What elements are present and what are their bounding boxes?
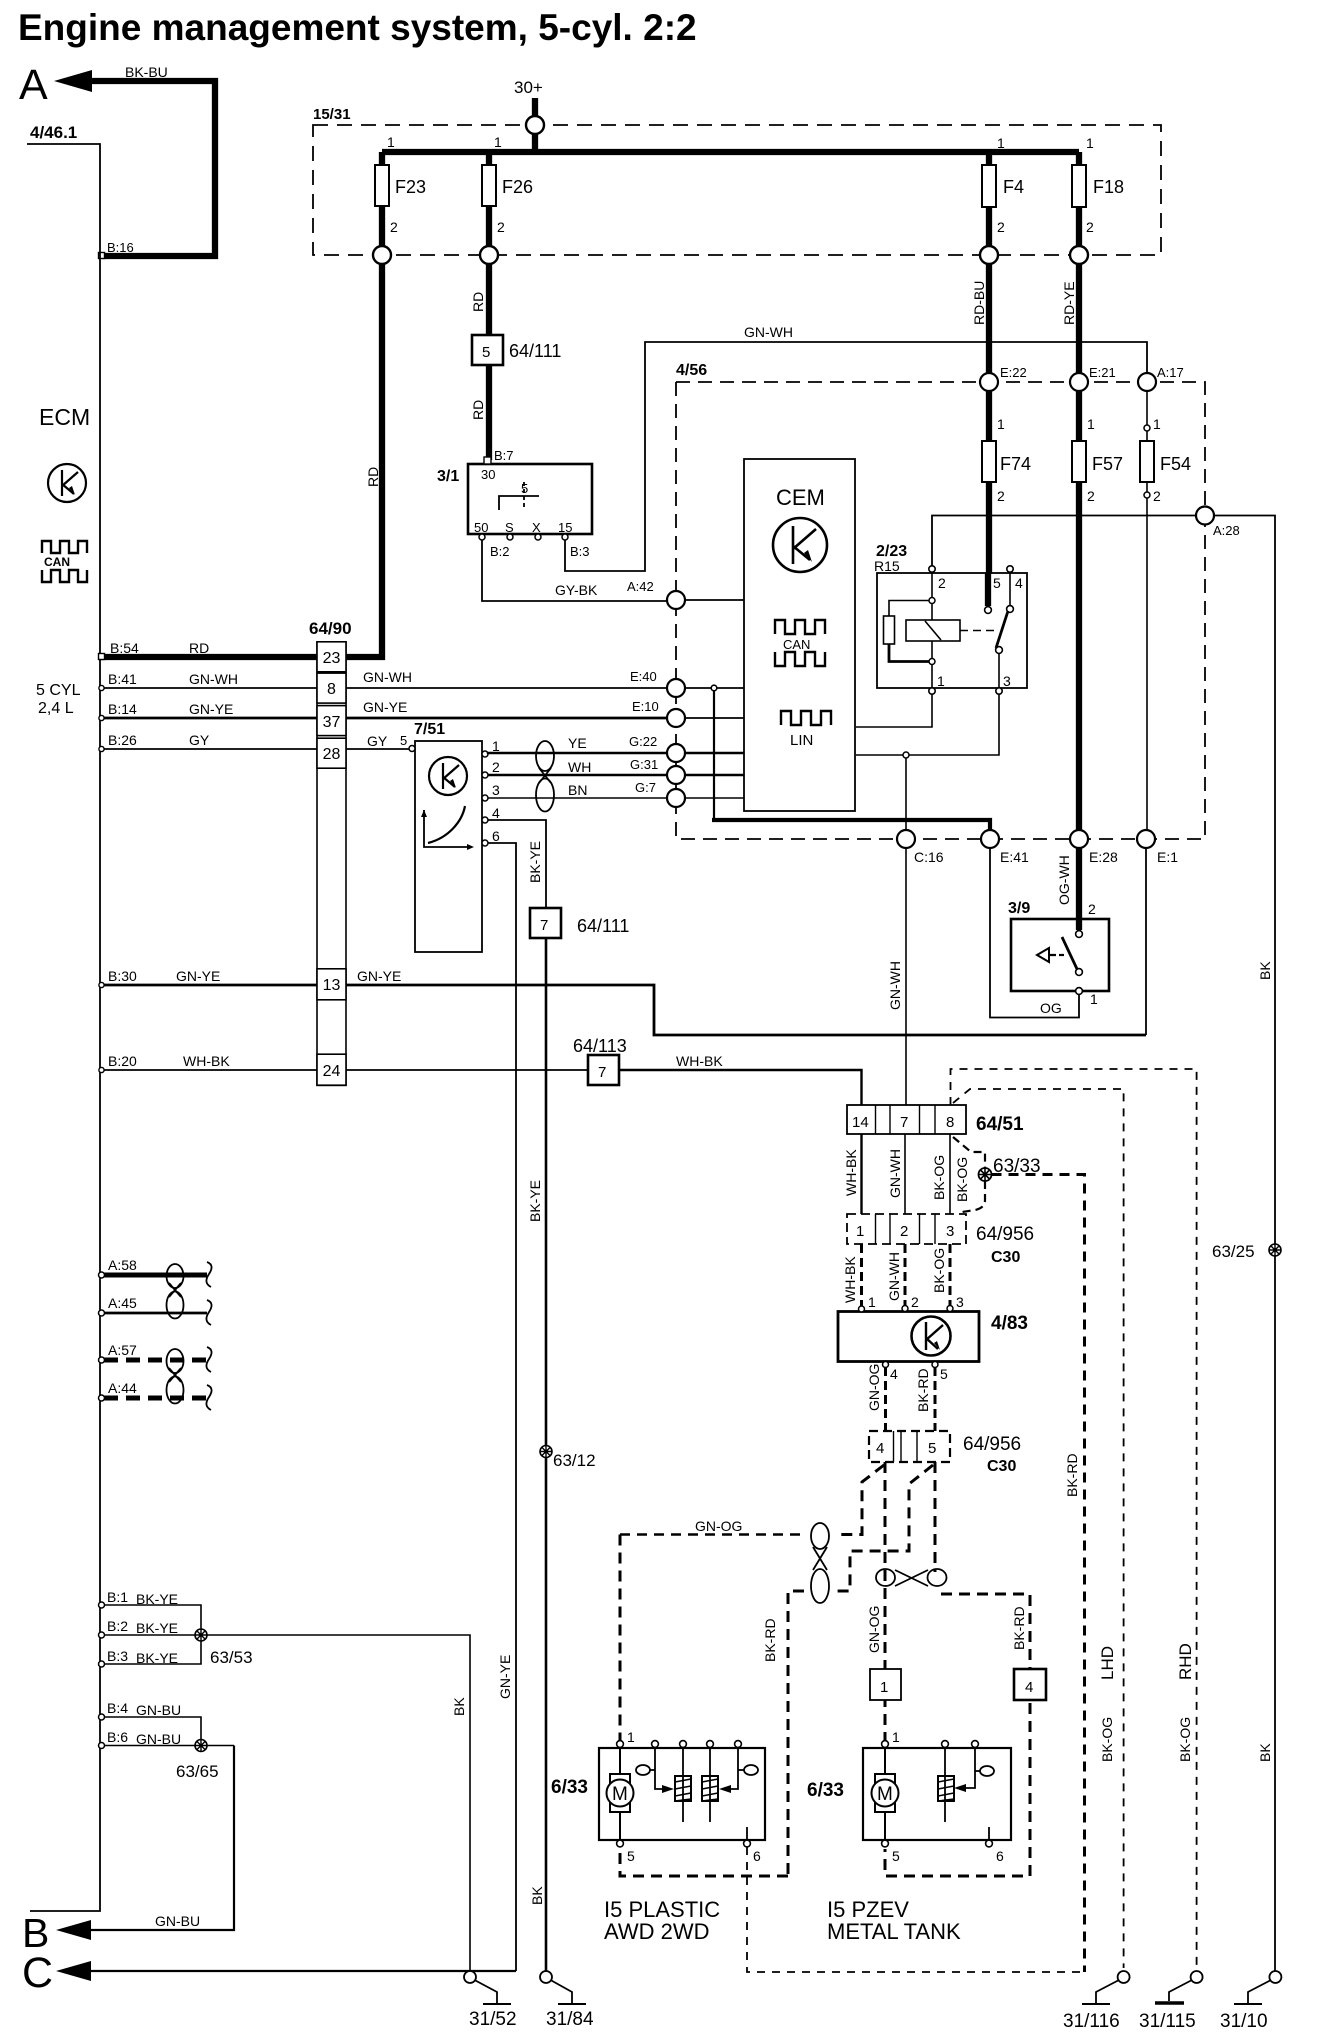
junction G:31 xyxy=(667,766,685,784)
svg-text:1: 1 xyxy=(387,134,395,150)
svg-text:31/52: 31/52 xyxy=(469,2009,517,2030)
svg-text:6: 6 xyxy=(996,1848,1004,1864)
CEM box xyxy=(744,459,855,811)
svg-text:RD: RD xyxy=(470,292,486,312)
svg-text:S: S xyxy=(505,520,514,535)
wire RD from F23 down to 64/90 pin 23 xyxy=(346,264,382,657)
left pump right branch with bulb xyxy=(731,1747,738,1789)
svg-text:2: 2 xyxy=(900,1223,908,1240)
svg-text:B:6: B:6 xyxy=(107,1729,128,1745)
svg-text:ECM: ECM xyxy=(39,404,90,430)
svg-text:2: 2 xyxy=(997,219,1005,235)
wire BK-OG 64/956.3 to 4/83.3 (dashed) xyxy=(949,1244,952,1305)
wire WH-BK B:20 row to 64/113 xyxy=(100,1069,317,1071)
junction C:16 on 4/56 lower edge xyxy=(897,830,915,848)
svg-text:64/90: 64/90 xyxy=(309,619,352,638)
svg-text:64/956: 64/956 xyxy=(963,1434,1021,1455)
svg-text:14: 14 xyxy=(852,1114,869,1131)
right pump inductor xyxy=(938,1776,954,1801)
svg-text:3: 3 xyxy=(1003,673,1011,689)
junction E:1 xyxy=(1137,830,1155,848)
wire BK-RD 64/956.5 to right pump loop xyxy=(934,1462,937,1572)
CEM CAN symbol xyxy=(775,620,825,634)
svg-text:6: 6 xyxy=(753,1848,761,1864)
wire GN-WH 64/51.7 to 64/956.2 xyxy=(904,1134,906,1214)
splice 63/25 xyxy=(1269,1244,1281,1256)
fuse F23 xyxy=(379,152,385,256)
svg-text:GN-WH: GN-WH xyxy=(363,669,412,685)
wire BK-RD 4/83.5 down (dashed) xyxy=(934,1367,937,1431)
svg-text:24: 24 xyxy=(323,1063,341,1080)
wire relay pin1 to CEM xyxy=(856,694,932,727)
7/51 level sender symbol xyxy=(424,810,470,847)
svg-text:RD-YE: RD-YE xyxy=(1061,281,1077,325)
svg-text:1: 1 xyxy=(937,673,945,689)
svg-text:F74: F74 xyxy=(1000,454,1031,474)
ECM pin A:44 twisted wire (dashed) xyxy=(99,1395,105,1401)
svg-text:AWD 2WD: AWD 2WD xyxy=(604,1919,710,1944)
junction A:28 xyxy=(1196,507,1214,525)
svg-text:64/111: 64/111 xyxy=(509,341,561,361)
splice 63/53 xyxy=(195,1629,207,1641)
svg-text:B:3: B:3 xyxy=(107,1648,128,1664)
svg-text:F4: F4 xyxy=(1003,177,1024,197)
svg-text:B:26: B:26 xyxy=(108,732,137,748)
wire GN-WH B:41 row into CEM xyxy=(667,687,744,689)
splice 63/65 xyxy=(195,1740,207,1752)
svg-text:WH: WH xyxy=(568,759,591,775)
left pump motor M xyxy=(619,1748,621,1774)
svg-text:6: 6 xyxy=(492,828,500,844)
junction E:28 xyxy=(1070,830,1088,848)
svg-text:4: 4 xyxy=(890,1366,898,1382)
svg-text:RD: RD xyxy=(189,640,209,656)
right pump pin 6 xyxy=(988,1827,990,1840)
svg-text:B:2: B:2 xyxy=(490,544,510,559)
svg-text:5: 5 xyxy=(928,1440,936,1457)
inline connector 64/111 pin 7 xyxy=(530,908,561,938)
wire BK-YE from pin 4 xyxy=(488,820,546,908)
ECM pin B:1 xyxy=(99,1602,105,1608)
4/83 pin 5 xyxy=(932,1362,938,1368)
svg-text:E:21: E:21 xyxy=(1089,365,1116,380)
svg-text:WH-BK: WH-BK xyxy=(183,1053,230,1069)
svg-text:4: 4 xyxy=(492,805,500,821)
svg-text:B:14: B:14 xyxy=(108,701,137,717)
svg-text:4: 4 xyxy=(1025,1679,1033,1696)
wire GN-WH B:41 row to E:40 xyxy=(100,687,317,689)
wire from 63/33 splice right and down (BK-RD) xyxy=(992,1175,1085,1973)
ECM CAN symbol xyxy=(42,541,87,553)
svg-text:BK: BK xyxy=(451,1697,467,1716)
right pump branch with bulb xyxy=(966,1747,975,1788)
svg-text:RD-BU: RD-BU xyxy=(971,281,987,325)
wire RD-BU from F4 down xyxy=(986,264,992,382)
svg-text:F26: F26 xyxy=(502,177,533,197)
wire RD B:54 row xyxy=(100,654,317,660)
svg-text:5 CYL: 5 CYL xyxy=(36,682,81,699)
svg-text:2: 2 xyxy=(1088,901,1096,917)
svg-text:B:2: B:2 xyxy=(107,1618,128,1634)
ECM pin A:45 twisted wire xyxy=(99,1310,105,1316)
wire GN-YE B:30 row to E:1 rail xyxy=(100,984,317,987)
svg-text:C: C xyxy=(22,1949,53,1997)
svg-text:B:20: B:20 xyxy=(108,1053,137,1069)
splice 63/33 xyxy=(979,1168,992,1181)
fuse F57 xyxy=(1076,391,1082,441)
wire GY B:26 row to 7/51 pin 5 xyxy=(100,748,317,750)
svg-text:B:30: B:30 xyxy=(108,968,137,984)
svg-text:8: 8 xyxy=(946,1114,954,1131)
twisted pair symbol right (horizontal) xyxy=(876,1569,895,1586)
svg-text:31/116: 31/116 xyxy=(1063,2011,1120,2032)
svg-text:1: 1 xyxy=(494,134,502,150)
ground 31/10 xyxy=(1269,1971,1281,1983)
svg-text:8: 8 xyxy=(327,681,336,698)
svg-text:GN-OG: GN-OG xyxy=(866,1606,882,1653)
7/51 pin 4 xyxy=(482,817,488,823)
svg-text:M: M xyxy=(877,1784,893,1805)
left pump inductor 1 xyxy=(675,1776,691,1801)
svg-text:WH-BK: WH-BK xyxy=(843,1149,859,1196)
relay pin 3 xyxy=(996,688,1002,694)
svg-text:WH-BK: WH-BK xyxy=(842,1256,858,1303)
left pump sender branch with bulb xyxy=(655,1747,662,1789)
wire BK-BU from ECM B:16 to A xyxy=(92,81,215,256)
svg-text:BK-RD: BK-RD xyxy=(1064,1453,1080,1497)
svg-text:2: 2 xyxy=(1153,488,1161,504)
svg-text:B:7: B:7 xyxy=(494,448,514,463)
svg-text:5: 5 xyxy=(400,733,407,748)
relay resistor xyxy=(884,616,895,644)
svg-text:5: 5 xyxy=(482,344,490,361)
junction 30+ at box edge xyxy=(526,116,544,134)
svg-text:3/9: 3/9 xyxy=(1008,900,1030,917)
svg-text:GN-BU: GN-BU xyxy=(155,1913,200,1929)
svg-text:13: 13 xyxy=(323,977,341,994)
svg-text:C30: C30 xyxy=(991,1249,1020,1266)
wire GN-OG 64/956.4 to left pump pin1 xyxy=(835,1465,884,1535)
wire dashed from 64/51.8 to RHD ground rail xyxy=(951,1069,1197,1968)
svg-text:63/25: 63/25 xyxy=(1212,1242,1255,1261)
svg-text:GN-WH: GN-WH xyxy=(744,324,793,340)
svg-text:31/10: 31/10 xyxy=(1220,2011,1268,2032)
relay pin 5 feed from F74 xyxy=(985,573,991,606)
svg-text:31/115: 31/115 xyxy=(1139,2011,1196,2032)
relay coil branch xyxy=(931,572,933,620)
svg-text:BK-BU: BK-BU xyxy=(125,64,168,80)
svg-text:E:28: E:28 xyxy=(1089,849,1118,865)
svg-text:OG-WH: OG-WH xyxy=(1056,855,1072,905)
svg-text:GN-BU: GN-BU xyxy=(136,1731,181,1747)
svg-text:5: 5 xyxy=(627,1848,635,1864)
fuse F4 xyxy=(986,152,992,256)
svg-text:5: 5 xyxy=(940,1366,948,1382)
svg-text:GY-BK: GY-BK xyxy=(555,582,598,598)
svg-text:F57: F57 xyxy=(1092,454,1123,474)
svg-text:7: 7 xyxy=(900,1114,908,1131)
svg-text:A:17: A:17 xyxy=(1157,365,1184,380)
svg-text:RHD: RHD xyxy=(1176,1643,1195,1680)
relay pin 4 xyxy=(1007,566,1013,572)
svg-text:BK: BK xyxy=(1257,1743,1273,1762)
splice 63/12 xyxy=(540,1446,552,1458)
64/90 pin 37 xyxy=(317,706,346,736)
wire GN-WH 64/956.2 to 4/83.2 (dashed) xyxy=(904,1244,907,1305)
ECM pin A:57 twisted wire (dashed) xyxy=(99,1357,105,1363)
svg-text:1: 1 xyxy=(1153,416,1161,432)
ground 31/115 xyxy=(1191,1971,1203,1983)
svg-text:GN-YE: GN-YE xyxy=(176,968,220,984)
svg-text:GN-WH: GN-WH xyxy=(886,1252,902,1301)
7/51 pin 6 xyxy=(482,840,488,846)
wire WH-BK 64/956.1 to 4/83.1 (dashed) xyxy=(860,1244,863,1306)
svg-text:63/65: 63/65 xyxy=(176,1762,219,1781)
left pump inductor 2 xyxy=(702,1776,718,1801)
ECM pin B:6 xyxy=(99,1743,105,1749)
pin B:7 xyxy=(484,457,491,464)
wire A:28 to BK right rail xyxy=(1214,516,1275,1972)
fuse F54 xyxy=(1146,391,1148,441)
svg-text:4: 4 xyxy=(876,1440,884,1457)
svg-text:A:45: A:45 xyxy=(108,1295,137,1311)
svg-text:2: 2 xyxy=(1087,488,1095,504)
64/90 pin 28 xyxy=(317,738,346,768)
svg-text:3: 3 xyxy=(956,1294,964,1310)
ground 31/84 xyxy=(540,1971,552,1983)
svg-text:3/1: 3/1 xyxy=(437,468,459,485)
svg-text:4/56: 4/56 xyxy=(676,362,707,379)
svg-text:G:31: G:31 xyxy=(630,757,658,772)
svg-text:2: 2 xyxy=(390,219,398,235)
svg-text:G:7: G:7 xyxy=(635,780,656,795)
svg-text:X: X xyxy=(532,520,541,535)
7/51 pin 2 xyxy=(482,772,488,778)
svg-text:64/51: 64/51 xyxy=(976,1114,1024,1135)
svg-text:F18: F18 xyxy=(1093,177,1124,197)
svg-text:1: 1 xyxy=(997,416,1005,432)
svg-text:2: 2 xyxy=(911,1294,919,1310)
svg-text:GN-YE: GN-YE xyxy=(357,968,401,984)
64/90 pin 8 xyxy=(317,673,346,703)
wire RD from 64/111 to ignition switch B:7 xyxy=(486,365,492,460)
svg-text:63/53: 63/53 xyxy=(210,1648,253,1667)
svg-text:64/111: 64/111 xyxy=(577,916,629,936)
junction E:22 xyxy=(980,373,998,391)
wire 30+ feed xyxy=(532,98,538,155)
svg-text:2: 2 xyxy=(938,575,946,591)
svg-text:1: 1 xyxy=(1087,416,1095,432)
wire dashed from 64/51.8 to LHD ground rail xyxy=(953,1089,1124,1968)
svg-text:A: A xyxy=(19,61,48,109)
svg-text:GN-WH: GN-WH xyxy=(189,671,238,687)
svg-text:G:22: G:22 xyxy=(629,734,657,749)
svg-text:6/33: 6/33 xyxy=(551,1777,588,1798)
svg-text:B:41: B:41 xyxy=(108,671,137,687)
wire GN-OG 4/83.4 down (dashed) xyxy=(884,1367,887,1431)
wire YE to G:22 xyxy=(488,753,667,754)
svg-text:GN-BU: GN-BU xyxy=(136,1702,181,1718)
junction E:40 xyxy=(667,679,685,697)
svg-text:YE: YE xyxy=(568,735,587,751)
left pump pin 6 xyxy=(746,1827,748,1840)
wire RD-YE / OG-WH from F57 down through E:28 to 3/9 xyxy=(1076,482,1082,830)
4/83 pin 4 xyxy=(883,1362,889,1368)
svg-text:B:16: B:16 xyxy=(107,240,134,255)
svg-text:BK-OG: BK-OG xyxy=(1177,1717,1193,1762)
inline connector 1 (right pump) xyxy=(870,1669,901,1700)
ECM pin B:3 xyxy=(99,1661,105,1667)
relay pin 2 xyxy=(929,566,935,572)
wire BK from 63/53 to ground 31/52 xyxy=(207,1635,470,1972)
svg-text:1: 1 xyxy=(880,1679,888,1696)
svg-text:A:44: A:44 xyxy=(108,1380,137,1396)
wire CEM to relay pin 2 riser and A:28 rail xyxy=(932,516,1205,570)
3/9 pin 1 xyxy=(1076,988,1083,995)
svg-text:5: 5 xyxy=(521,481,528,496)
inline connector 4 (right pump) xyxy=(1014,1669,1046,1700)
svg-text:GN-WH: GN-WH xyxy=(887,961,903,1010)
svg-text:BK-YE: BK-YE xyxy=(136,1620,178,1636)
svg-text:LHD: LHD xyxy=(1098,1646,1117,1680)
junctions on box lower edge xyxy=(373,246,391,264)
svg-text:A:28: A:28 xyxy=(1213,523,1240,538)
ECM pin B:4 xyxy=(99,1714,105,1720)
fuse F74 xyxy=(986,391,992,441)
svg-text:C:16: C:16 xyxy=(914,849,944,865)
svg-text:A:58: A:58 xyxy=(108,1257,137,1273)
junction E:10 xyxy=(667,709,685,727)
svg-text:RD: RD xyxy=(365,467,381,487)
twisted pair symbol A:57/A:44 xyxy=(167,1349,184,1373)
svg-text:WH-BK: WH-BK xyxy=(676,1053,723,1069)
ground 31/52 xyxy=(464,1971,476,1983)
svg-text:GY: GY xyxy=(367,733,388,749)
wire GN-WH down from branch through C:16 xyxy=(905,758,907,830)
svg-text:1: 1 xyxy=(868,1294,876,1310)
svg-text:1: 1 xyxy=(492,738,500,754)
svg-text:BK-RD: BK-RD xyxy=(1011,1606,1027,1650)
svg-text:1: 1 xyxy=(1090,991,1098,1007)
wire from E:1 down to GN-YE rail xyxy=(1145,848,1147,1035)
wire relay pin3 to CEM with GN-WH branch xyxy=(856,694,999,755)
svg-text:E:22: E:22 xyxy=(1000,365,1027,380)
svg-text:7: 7 xyxy=(598,1064,606,1081)
wire GN-YE B:14 row to E:10 xyxy=(100,717,317,720)
svg-text:A:42: A:42 xyxy=(627,579,654,594)
wire BK-YE from 64/111 down xyxy=(545,938,548,1972)
svg-text:4: 4 xyxy=(1015,575,1023,591)
wire WH-BK 64/51.14 to 64/956.1 xyxy=(860,1134,862,1214)
ECM pin A:58 twisted wire xyxy=(99,1272,105,1278)
inline connector 64/111 pin 5 xyxy=(472,335,503,365)
svg-text:BK-OG: BK-OG xyxy=(954,1157,970,1202)
svg-text:BK-OG: BK-OG xyxy=(931,1248,947,1293)
wire branch from E:40 row down to E:41 (thick) xyxy=(711,685,717,691)
svg-text:2: 2 xyxy=(497,219,505,235)
junction G:22 xyxy=(667,744,685,762)
svg-text:CEM: CEM xyxy=(776,485,825,510)
wire GN-OG 64/956.4 to right pump (dashed) xyxy=(884,1462,887,1743)
junction E:41 xyxy=(981,830,999,848)
svg-text:28: 28 xyxy=(323,746,341,763)
svg-text:C30: C30 xyxy=(987,1458,1016,1475)
svg-text:5: 5 xyxy=(892,1848,900,1864)
svg-text:F23: F23 xyxy=(395,177,426,197)
svg-text:OG: OG xyxy=(1040,1000,1062,1016)
svg-text:3: 3 xyxy=(492,782,500,798)
svg-text:4/46.1: 4/46.1 xyxy=(30,123,77,142)
svg-text:1: 1 xyxy=(892,1729,900,1745)
svg-text:2: 2 xyxy=(1086,219,1094,235)
64/90 pin 23 xyxy=(317,642,346,672)
svg-text:F54: F54 xyxy=(1160,454,1191,474)
svg-text:64/113: 64/113 xyxy=(573,1036,627,1056)
svg-text:E:41: E:41 xyxy=(1000,849,1029,865)
wire BK-RD 64/956.5 to left pump pin5 xyxy=(836,1465,933,1591)
svg-text:BK: BK xyxy=(1257,961,1273,980)
svg-text:GN-WH: GN-WH xyxy=(887,1149,903,1198)
wire main bus xyxy=(382,149,1079,155)
svg-text:31/84: 31/84 xyxy=(546,2009,594,2030)
svg-text:37: 37 xyxy=(323,714,341,731)
svg-text:E:1: E:1 xyxy=(1157,849,1178,865)
svg-text:Engine management system, 5-cy: Engine management system, 5-cyl. 2:2 xyxy=(18,7,697,48)
wire BK-OG branch to splice 63/33 xyxy=(953,1137,985,1168)
4/83 K symbol xyxy=(912,1317,951,1356)
7/51 pin 1 xyxy=(482,751,488,757)
svg-text:7: 7 xyxy=(540,917,548,934)
svg-text:B:1: B:1 xyxy=(107,1589,128,1605)
twisted pair symbol YE/WH/BN xyxy=(536,741,554,771)
svg-text:RD: RD xyxy=(470,400,486,420)
7/51 K symbol xyxy=(429,757,467,795)
junction G:7 xyxy=(667,789,685,807)
svg-text:GN-OG: GN-OG xyxy=(695,1518,742,1534)
svg-text:BN: BN xyxy=(568,782,587,798)
svg-text:E:10: E:10 xyxy=(632,699,659,714)
svg-text:2,4 L: 2,4 L xyxy=(38,700,74,717)
svg-text:CAN: CAN xyxy=(783,637,810,652)
junction E:21 xyxy=(1070,373,1088,391)
svg-text:64/956: 64/956 xyxy=(976,1224,1034,1245)
svg-text:4/83: 4/83 xyxy=(991,1313,1028,1334)
wire OG from 3/9 pin1 to E:41 xyxy=(990,848,1079,1018)
svg-text:A:57: A:57 xyxy=(108,1342,137,1358)
ground 31/116 xyxy=(1118,1971,1130,1983)
svg-text:15: 15 xyxy=(558,520,572,535)
wire BN to G:7 xyxy=(488,797,667,799)
relay pin 1 xyxy=(929,688,935,694)
svg-text:63/12: 63/12 xyxy=(553,1451,596,1470)
svg-text:1: 1 xyxy=(1086,135,1094,151)
svg-text:B:54: B:54 xyxy=(110,640,139,656)
svg-text:6/33: 6/33 xyxy=(807,1780,844,1801)
wire RD from F26 down to 64/111 xyxy=(486,264,492,335)
svg-text:METAL TANK: METAL TANK xyxy=(827,1919,961,1944)
ECM K symbol xyxy=(48,464,86,502)
svg-text:GN-YE: GN-YE xyxy=(189,701,233,717)
svg-text:3: 3 xyxy=(946,1223,954,1240)
svg-text:GN-OG: GN-OG xyxy=(866,1364,882,1411)
svg-text:M: M xyxy=(612,1784,628,1805)
CEM LIN symbol xyxy=(781,711,831,725)
svg-text:30+: 30+ xyxy=(514,78,543,97)
svg-text:15/31: 15/31 xyxy=(313,106,351,123)
svg-text:E:40: E:40 xyxy=(630,669,657,684)
svg-text:B:4: B:4 xyxy=(107,1700,128,1716)
wire WH to G:31 xyxy=(488,774,667,776)
